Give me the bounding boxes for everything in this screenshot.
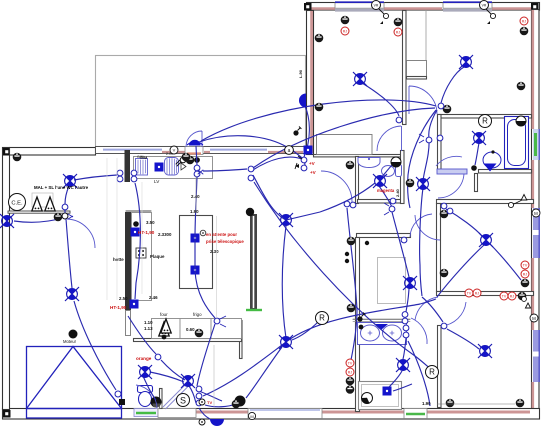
svg-text:en attente pour: en attente pour — [206, 232, 237, 237]
interior wall: bed4 left — [438, 326, 442, 408]
junction boxes — [248, 166, 254, 172]
hotte blue socket — [131, 228, 140, 237]
appliance socket at 387,391 — [383, 387, 392, 396]
wire hall junction to bed2 light — [441, 67, 464, 103]
door arc hall/living — [415, 297, 438, 320]
socket outlet at 525,283 — [521, 279, 530, 288]
svg-text:hotte: hotte — [113, 257, 124, 262]
TV outlet at 469,293 — [465, 289, 473, 297]
exterior wall: right side — [532, 10, 540, 413]
svg-text:prise télescopique: prise télescopique — [206, 239, 244, 244]
plaque symbol — [136, 248, 146, 258]
warning triangle at 37,205 — [32, 197, 42, 211]
interior wall: bathroom2 left — [356, 238, 360, 412]
svg-text:M: M — [250, 414, 253, 419]
interior wall: WC left — [356, 157, 359, 204]
wall lights — [391, 157, 401, 167]
wire garage light to circles — [65, 186, 69, 204]
socket outlet at 398,22 — [394, 18, 403, 27]
interior wall: bathroom1 bottom right part — [479, 170, 532, 174]
bath2 vanity switch — [359, 325, 364, 330]
svg-text:+V: +V — [309, 161, 316, 166]
kitchen left counter — [132, 213, 152, 301]
bottom window 2 — [404, 409, 427, 419]
ceiling light at 466,62 — [459, 55, 473, 69]
band pink segments — [162, 151, 186, 153]
VR roller blinds — [372, 1, 381, 10]
svg-text:2.40: 2.40 — [395, 188, 400, 197]
socket outlet at 319,107 — [315, 103, 324, 112]
junction box at 199,389 — [196, 386, 202, 392]
garage door — [27, 347, 122, 419]
junction box at 405,314.5 — [402, 312, 408, 318]
bathroom2 cabinet — [378, 258, 406, 304]
wire WC to bathroom2 — [379, 186, 392, 207]
wire sweep to bed3 light — [437, 245, 484, 297]
svg-text:magenta: magenta — [377, 188, 395, 193]
svg-text:Moteur: Moteur — [63, 339, 77, 344]
RJ45 outlet at 398,32 — [394, 28, 402, 36]
bathroom2 double vasque — [353, 318, 410, 320]
socket outlet at 186,157 — [182, 153, 191, 162]
wire long top arc 2 — [201, 100, 436, 141]
svg-text:2.30: 2.30 — [210, 249, 219, 254]
S symbol — [177, 394, 190, 407]
ceiling light at 188,381 — [181, 374, 195, 388]
TV outlet at 525,265 — [521, 261, 529, 269]
wire entry lights — [189, 386, 196, 403]
exterior wall: right wing left side (pink) — [307, 11, 314, 155]
wire bed3 junction to light — [446, 209, 483, 237]
svg-text:2.46: 2.46 — [149, 295, 158, 300]
sockets bed3 — [440, 210, 449, 219]
garage top door arc — [67, 219, 95, 248]
interior wall: WC right — [401, 151, 405, 204]
socket outlet at 444,273 — [440, 269, 449, 278]
window right 2 — [533, 208, 539, 258]
faucet triangle — [181, 163, 186, 170]
RJ45 outlet at 512,296 — [508, 292, 516, 300]
interior wall: bed1/bed2 divider — [403, 11, 407, 125]
door arc WC — [321, 171, 352, 202]
svg-text:1.90: 1.90 — [422, 401, 431, 406]
junction island-entry — [197, 324, 215, 386]
junction box at 251,178 — [248, 175, 254, 181]
ceiling light at 485,351 — [478, 344, 492, 358]
wire hall to WC light — [320, 183, 375, 212]
interior wall: bathroom1 left — [438, 115, 442, 170]
wire garage lights vertical — [66, 219, 72, 288]
dimension lines — [107, 158, 515, 408]
wire hall arcs down — [408, 110, 436, 208]
bath1 switch dots — [491, 150, 494, 153]
wall band terrace/kitchen — [96, 147, 307, 154]
kitchen junctions — [194, 165, 200, 171]
closet bed1 — [317, 135, 373, 155]
entry door arc — [136, 385, 157, 408]
closet stub wall — [407, 77, 427, 80]
door lintel bathroom1 — [437, 169, 467, 174]
door marker bed3 — [521, 195, 527, 201]
wire +V stubs — [303, 157, 305, 168]
hood socket dot — [133, 221, 139, 227]
garage shelf — [8, 211, 70, 213]
RJ45 outlet at 345,31 — [341, 27, 349, 35]
RJ45 outlet at 477,293 — [473, 289, 481, 297]
door arc bathroom2 — [410, 214, 432, 237]
junction box at 304,168 — [301, 165, 307, 171]
junction box at 393,201 — [390, 198, 396, 204]
svg-text:S: S — [180, 395, 186, 405]
svg-text:TV: TV — [207, 400, 212, 405]
outside door light dome — [210, 419, 224, 426]
entry door diagonal — [163, 382, 191, 409]
wire entry light chain 2 — [150, 372, 184, 382]
exterior wall: bottom — [3, 409, 540, 420]
garage triangles — [32, 193, 53, 207]
socket outlet at 199,333 — [195, 329, 204, 338]
ceiling light at 403,365 — [396, 358, 410, 372]
RJ45 outlet at 525,274 — [521, 270, 529, 278]
svg-text:C.E.: C.E. — [11, 200, 23, 206]
exterior wall: garage top — [10, 148, 96, 156]
kitchen socket — [186, 156, 195, 165]
junction box at 217,321 — [214, 318, 220, 324]
svg-text:1.10: 1.10 — [144, 320, 153, 325]
junction box at 405,321 — [402, 318, 408, 324]
socket outlet at 236,404 — [232, 400, 241, 409]
junction box at 65,207 — [62, 204, 68, 210]
door arcs — [67, 86, 467, 409]
corner post top right — [531, 3, 539, 11]
wire living light to lamp — [246, 347, 282, 398]
ceiling light at 286,342 — [279, 335, 293, 349]
junction box at 406,328 — [403, 325, 409, 331]
ceiling light at 410,283 — [403, 276, 417, 290]
terrace wall dome light — [299, 94, 306, 108]
RJ45 outlet at 350,372 — [346, 368, 354, 376]
bathroom2 shower — [359, 382, 402, 410]
junction box at 353,205 — [350, 202, 356, 208]
wire bed4 junction up — [422, 297, 443, 322]
ceiling light at 486,240 — [479, 233, 493, 247]
wire door to junction — [203, 169, 247, 171]
wire junction to living light — [253, 157, 320, 220]
svg-text:3.50: 3.50 — [146, 220, 155, 225]
wire to shower socket — [393, 384, 412, 391]
RJ45 outlet at 524,21 — [520, 17, 528, 25]
appliance socket at 308,150 — [304, 146, 313, 155]
socket outlet at 520,403 — [516, 399, 525, 408]
socket outlet at 350,165 — [346, 161, 355, 170]
wire garage light to door motor — [74, 301, 116, 390]
junction box at 304,160 — [301, 157, 307, 163]
kitchen island — [180, 216, 213, 289]
svg-text:orange: orange — [136, 356, 152, 361]
wire long top arc 1 — [199, 136, 302, 158]
socket outlet at 524,31 — [520, 27, 529, 36]
terrace door gap — [185, 147, 203, 155]
wire WC light to wall light — [381, 164, 393, 178]
kitchen counter bottom edge — [134, 339, 242, 342]
wire bathroom2 vertical — [389, 212, 409, 387]
interior wall: WC bottom — [358, 200, 404, 204]
sockets bottom wall — [446, 399, 455, 408]
moteur — [69, 330, 78, 339]
wire vasque to bottom wall — [408, 341, 430, 406]
door leaf bed1 — [401, 126, 403, 151]
entry triangle — [161, 319, 171, 333]
oven/fridge lower counter — [152, 319, 242, 339]
svg-text:L.90: L.90 — [298, 69, 303, 78]
LV blue socket — [155, 163, 164, 172]
switches — [471, 165, 477, 171]
ceiling lights — [353, 72, 367, 86]
closet bed2 — [407, 61, 427, 77]
window right 3 — [533, 330, 539, 382]
bathroom1 sink — [483, 152, 501, 168]
wire living lamp to socket — [205, 404, 236, 407]
island blue sockets — [191, 234, 200, 243]
roller blind control at 484,5 — [480, 1, 489, 10]
wire hall arc 2 — [420, 110, 437, 296]
svg-text:HT-1,90: HT-1,90 — [110, 305, 127, 310]
wire bar down to hotte socket — [135, 183, 140, 299]
living floor lamp — [235, 396, 246, 407]
entry wall stub — [240, 321, 243, 359]
thermostat a — [285, 146, 294, 155]
svg-text:HT-1,90: HT-1,90 — [138, 230, 155, 235]
corner post bottom left — [3, 410, 11, 418]
M symbols — [532, 209, 540, 217]
black lamp near island — [246, 208, 254, 216]
socket outlet at 351,308 — [347, 304, 356, 313]
interior wall: bed3 bottom — [437, 292, 534, 296]
ceiling light at 286,220 — [279, 213, 293, 227]
wire orange junction — [128, 316, 185, 380]
wire junction to hall — [253, 108, 435, 168]
svg-text:MAL + SL l'une WC l'autre: MAL + SL l'une WC l'autre — [34, 185, 89, 190]
bathroom1 bathtub — [505, 117, 529, 169]
svg-text:2.3300: 2.3300 — [158, 232, 172, 237]
junction box at 120,179 — [117, 176, 123, 182]
interior wall: kitchen-garage bar — [125, 150, 131, 182]
svg-text:1.13: 1.13 — [144, 326, 153, 331]
window top 1 — [335, 2, 384, 10]
junction box at 392,209 — [389, 206, 395, 212]
door arc bed4 — [441, 302, 466, 326]
TV outlet at 350,363 — [346, 359, 354, 367]
switch at 360,319 — [357, 313, 365, 322]
terrace door arc — [186, 131, 202, 147]
svg-text:four: four — [160, 312, 168, 317]
svg-text:G/M: G/M — [140, 156, 147, 160]
junction box at 197,174 — [194, 171, 200, 177]
junction box at 406,335 — [403, 332, 409, 338]
svg-text:2.50: 2.50 — [119, 296, 128, 301]
WC small sink — [358, 158, 380, 168]
svg-text:M: M — [534, 211, 538, 216]
junction box at 444,206 — [441, 203, 447, 209]
CE boiler — [9, 194, 26, 211]
interior wall: bed1 bottom / hall top — [314, 155, 403, 157]
entry floor lamp — [151, 397, 162, 408]
kitchen top counter — [134, 157, 213, 179]
wire bed4 junction to light — [447, 329, 479, 349]
wire kitchen vertical — [195, 146, 215, 318]
four warning triangle — [159, 322, 169, 336]
wire bed3 light to corner — [490, 244, 521, 280]
junction box at 158,357 — [155, 354, 161, 360]
ceiling light at 70,181 — [63, 174, 77, 188]
bar junction circles — [117, 170, 123, 176]
socket outlet at 410,183 — [406, 179, 415, 188]
sockets bathroom2 wall — [347, 237, 356, 246]
bottom window white — [158, 409, 196, 418]
junction box at 399,120 — [396, 117, 402, 123]
closet dim line — [425, 10, 427, 60]
window top 2 — [443, 2, 492, 10]
ceiling light at 145,372 — [138, 365, 152, 379]
door arc bathroom2 lower — [411, 318, 427, 344]
interior wall: bathroom1 top — [438, 115, 532, 119]
wire entry to S — [196, 390, 222, 401]
appliance socket at 195,270 — [191, 266, 200, 275]
wire bed1 light to door — [362, 83, 399, 116]
radiator at 322,318 — [316, 312, 329, 325]
ceiling light at 380,181 — [373, 174, 387, 188]
terrace outline — [96, 56, 306, 147]
wire bath1 switch to light — [475, 143, 479, 165]
socket outlet at 522,296 — [518, 292, 527, 301]
oven blue socket2 — [130, 300, 139, 309]
interior wall: bathroom2 top — [357, 234, 411, 238]
ceiling light at 7,221 — [0, 214, 14, 228]
wire to outside dome — [199, 408, 210, 419]
corner post top left — [3, 148, 11, 156]
svg-text:Plaque: Plaque — [150, 254, 165, 259]
warning triangle at 50,205 — [45, 197, 55, 211]
exterior wall: left (garage) — [3, 148, 10, 410]
wire junctions down left wall — [347, 208, 357, 360]
V circle on wall — [170, 146, 178, 154]
kitchen sink drainer — [165, 158, 179, 176]
junction box at 429,140 — [426, 137, 432, 143]
toilet alcove stub — [160, 389, 163, 409]
socket outlet at 350,389.5 — [346, 385, 355, 394]
svg-text:0.60: 0.60 — [186, 327, 195, 332]
sockets bed1 — [315, 34, 324, 43]
terrace band window 2 — [210, 149, 267, 151]
junction box at 450,211 — [447, 208, 453, 214]
junction box at 65,216 — [62, 213, 68, 219]
socket outlet at 521,86 — [517, 82, 526, 91]
junction box at 199,396 — [196, 393, 202, 399]
WC toilet — [382, 165, 402, 177]
socket outlet at 350,381 — [346, 377, 355, 386]
wire living light to radiator — [292, 321, 319, 340]
svg-text:M: M — [532, 316, 536, 321]
interior wall: bed3 top — [437, 200, 534, 204]
door arc bed3 — [415, 215, 440, 240]
junction box at 441,106 — [438, 103, 444, 109]
door arc bed2 — [409, 86, 437, 114]
wire toilet light — [143, 376, 156, 400]
sockets left wing — [13, 153, 22, 162]
wire terrace dome down — [304, 106, 309, 157]
interior wall: stub below bath door — [475, 174, 478, 192]
corner post bottom right — [531, 411, 539, 419]
ceiling light at 479,138 — [472, 131, 486, 145]
socket outlet at 58,217 — [54, 213, 63, 222]
sockets bed2 — [443, 105, 452, 114]
ceiling light at 72,294 — [65, 287, 79, 301]
interior wall: bathroom1 bottom left part — [438, 170, 464, 174]
green door kitchen-living — [246, 309, 262, 311]
interior wall: kitchen-living bar — [250, 214, 257, 310]
small entry circles — [199, 399, 205, 405]
ceiling light at 423,184 — [416, 177, 430, 191]
junction box at 347,204 — [344, 201, 350, 207]
svg-text:frigo: frigo — [193, 312, 202, 317]
junction box at 440,138 — [437, 135, 443, 141]
junction box at 134,173 — [131, 170, 137, 176]
entry toilet — [138, 386, 153, 407]
wire bar circles to garage light — [74, 175, 117, 180]
junction box at 444,326 — [441, 323, 447, 329]
door arc bed1 — [377, 126, 401, 151]
junction box at 404,240 — [401, 237, 407, 243]
wire living light down — [282, 226, 286, 338]
wire big diagonal — [254, 182, 432, 370]
wall light at 521,121 — [516, 116, 526, 126]
bottom door green — [134, 409, 158, 417]
svg-text:+V: +V — [310, 170, 317, 175]
radiator at 432,372 — [426, 366, 439, 379]
junction box at 199,403 — [196, 400, 202, 406]
dish unit G/M — [136, 159, 148, 176]
door arc bathroom1 — [438, 174, 464, 198]
switch at 296,133 — [293, 127, 301, 136]
corner post top left of wing — [304, 3, 312, 11]
svg-text:V: V — [173, 148, 176, 153]
socket outlet at 345,20 — [341, 16, 350, 25]
radiators — [479, 115, 492, 128]
junction box at 134,179 — [131, 176, 137, 182]
bottom glass door — [248, 409, 322, 419]
terrace band window 1 — [103, 149, 162, 151]
interior wall: bed3 left — [437, 204, 441, 292]
svg-text:1.90: 1.90 — [190, 209, 199, 214]
wire entry sweep right — [203, 299, 436, 396]
exterior wall: right wing top — [307, 3, 540, 11]
svg-text:2.40: 2.40 — [191, 194, 200, 199]
TV outlet at 504,296 — [500, 292, 508, 300]
svg-text:a: a — [288, 148, 291, 154]
window right 1 (green) — [533, 129, 539, 160]
bathroom1 vanity light — [484, 164, 497, 172]
